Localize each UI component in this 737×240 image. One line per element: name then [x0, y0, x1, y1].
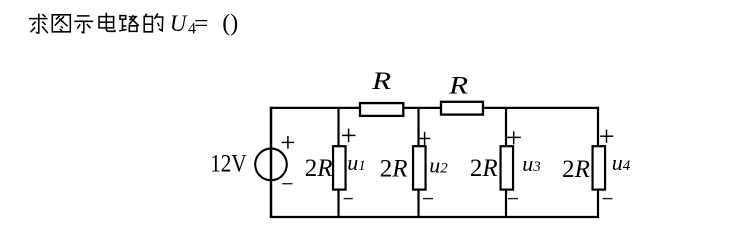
- char 示: [74, 16, 93, 33]
- svg-text:(): (): [222, 10, 238, 36]
- resistor 2R #1 body: [333, 146, 346, 189]
- char 图: [52, 15, 70, 32]
- polarity + of u2: [419, 132, 430, 145]
- polarity - of u3: [508, 198, 518, 200]
- char 求: [29, 14, 48, 34]
- polarity + of u1: [342, 129, 356, 143]
- wire left (source branch): [270, 107, 273, 217]
- wire branch 2 (node B): [417, 108, 419, 217]
- resistor 2R #4 body: [593, 146, 606, 189]
- wire bottom: [270, 216, 599, 218]
- polarity + of source: [282, 136, 295, 149]
- resistor R #1 (horizontal) body: [360, 103, 403, 116]
- svg-text:R: R: [448, 73, 468, 100]
- svg-text:=: =: [194, 11, 208, 37]
- wire top: [270, 107, 599, 109]
- polarity + of u3: [507, 131, 521, 144]
- resistor 2R #3 body: [501, 146, 514, 189]
- wire branch 1 (node A): [337, 108, 339, 217]
- polarity - of u2: [423, 198, 433, 200]
- svg-text:U: U: [170, 11, 188, 36]
- svg-text:12V: 12V: [210, 150, 247, 177]
- title text: 求图示电路的 (hand-drawn CJK glyph strokes): [29, 13, 163, 34]
- resistor R #2 (horizontal) body: [441, 102, 483, 115]
- polarity - of u4: [603, 198, 613, 200]
- char 电: [99, 13, 115, 32]
- polarity + of u4: [600, 130, 613, 143]
- polarity - of u1: [344, 198, 353, 200]
- resistor 2R #2 body: [413, 146, 426, 189]
- polarity - of source: [282, 183, 292, 185]
- char 路: [119, 15, 139, 31]
- svg-text:2R: 2R: [562, 156, 590, 183]
- voltage source V1 12V: [255, 149, 287, 181]
- svg-text:2R: 2R: [305, 155, 333, 182]
- svg-text:2R: 2R: [470, 155, 498, 182]
- wire branch 4 (right edge): [597, 107, 599, 217]
- title text: U4= (): [170, 10, 238, 37]
- wire branch 3 (node C): [505, 108, 507, 217]
- svg-text:R: R: [371, 68, 391, 95]
- svg-text:2R: 2R: [380, 156, 408, 183]
- char 的: [144, 13, 163, 31]
